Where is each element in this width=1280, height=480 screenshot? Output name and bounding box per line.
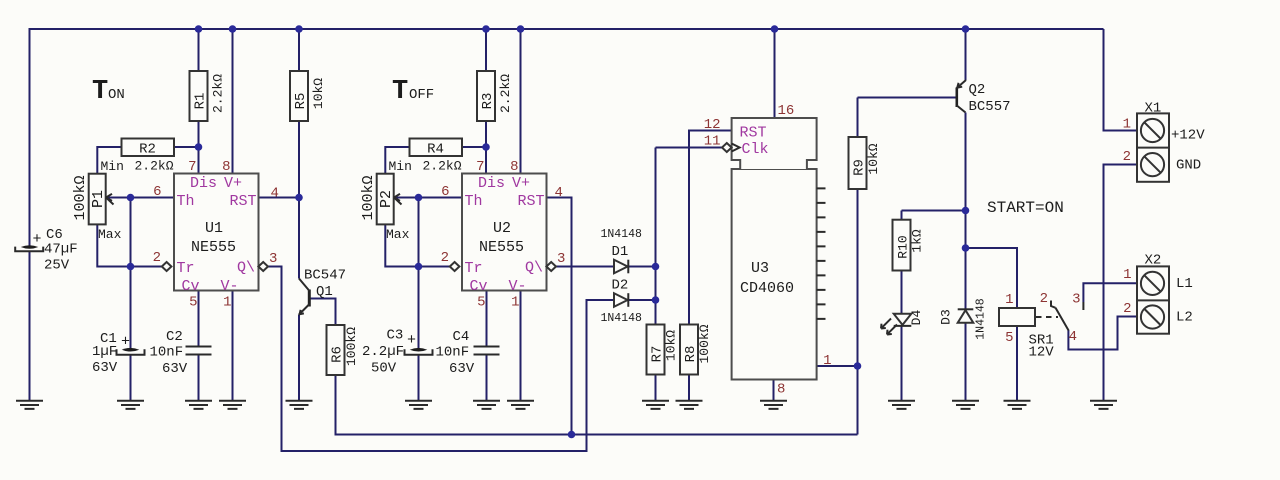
ground R8 [676,401,703,409]
ground C4 [473,401,500,409]
diode D2 [614,293,628,307]
ground C6 [16,401,43,409]
svg-text:2: 2 [1040,291,1048,307]
terminal block X1 [1137,113,1169,181]
capacitor C4 [474,347,500,355]
node A: P1 wiper / U1 Th / C1 [127,194,135,202]
svg-text:1: 1 [1123,117,1131,133]
junction R5/bus [295,25,303,33]
potentiometer P1 wiper arrow [106,194,114,205]
svg-text:NE555: NE555 [191,239,236,256]
op-amp U1 NE555 box [174,174,259,291]
svg-text:2: 2 [1123,301,1131,317]
svg-text:+: + [33,231,42,248]
wire P1 wiper to U1 pin 6 Th [108,197,175,199]
wire D4 cathode to ground [901,327,903,402]
ground U1 pin1 [219,401,246,409]
svg-text:2.2kΩ: 2.2kΩ [134,159,173,174]
svg-text:Cv: Cv [470,278,488,295]
svg-text:100kΩ: 100kΩ [360,175,377,220]
svg-text:V-: V- [221,278,239,295]
wire R1 to U1 pin 7 [198,121,200,174]
svg-text:L2: L2 [1176,310,1193,326]
svg-text:63V: 63V [162,361,188,377]
svg-text:Th: Th [177,193,195,210]
svg-text:R5: R5 [293,93,309,110]
junction Q2 emitter/bus [962,25,970,33]
svg-text:3: 3 [1072,292,1080,308]
svg-text:U1: U1 [205,220,223,237]
svg-text:Tr: Tr [465,260,483,277]
resistor R3 [477,71,495,121]
svg-text:100kΩ: 100kΩ [72,175,89,220]
X1 screw 1 [1141,119,1164,142]
svg-text:R3: R3 [480,93,496,110]
svg-text:7: 7 [476,159,484,175]
svg-text:Clk: Clk [742,141,769,158]
wire R10 to LED D4 [901,271,903,314]
op-amp U2 NE555 box [462,174,547,291]
wire U1 pin 3 output down and right to D2 [268,267,614,452]
U3 pin 11 clock symbol [732,144,740,152]
svg-text:10nF: 10nF [150,345,184,361]
svg-text:U2: U2 [493,220,511,237]
svg-text:4: 4 [271,186,279,202]
resistor R8 [680,325,698,375]
svg-text:8: 8 [777,382,785,398]
wire P2 bottom Max to U2 pin 2 Tr [385,224,449,266]
wire U3 pin 8 to ground [773,380,775,402]
ground D4 [888,401,915,409]
svg-text:Q1: Q1 [316,284,333,300]
junction U2 V+/bus [517,25,525,33]
U1 pin 3 negation diamond [258,262,268,271]
ground C2 [185,401,212,409]
svg-text:2: 2 [441,250,449,266]
junction U1 Tr / C1 [127,263,135,271]
junction U3 pin1 / R9 [854,362,862,370]
svg-text:Cv: Cv [182,278,200,295]
wire Clk column to R7 [655,148,657,325]
U1 pin 2 negation diamond [162,262,172,271]
wire node B down to C3 [418,198,420,349]
wire bus to R1 [198,29,200,71]
svg-text:D1: D1 [612,244,629,260]
wire left +12V drop to C6 [29,28,31,246]
ground C3 [405,401,432,409]
svg-text:1kΩ: 1kΩ [910,229,925,253]
wire R8 to ground [688,375,690,402]
junction Q2 collector / relay [962,244,970,252]
svg-text:16: 16 [778,103,795,119]
wire R7 to ground [655,375,657,402]
wire R2 left lead to P1 top [97,147,121,174]
junction U1 RST / R5 / Q1 collector [295,194,303,202]
svg-text:5: 5 [1005,330,1013,346]
svg-text:2.2µF: 2.2µF [362,344,404,360]
svg-text:T: T [392,77,408,107]
svg-text:BC557: BC557 [969,99,1011,115]
wire Q1 emitter to ground [298,315,300,402]
svg-text:12: 12 [704,117,721,133]
resistor R7 [647,325,665,375]
ground X1 GND [1090,401,1117,409]
ground R7 [642,401,669,409]
svg-text:6: 6 [153,184,161,200]
U3 right side unconnected pin stubs [817,188,826,319]
svg-text:1: 1 [823,353,831,369]
junction Q2 collector / R10 [962,207,970,215]
wire collector node to relay coil SR1 [966,248,1018,308]
U2 pin 2 negation diamond [450,262,460,271]
junction D2 cathode / Clk [652,296,660,304]
wire bus to U2 pin 8 V+ [520,29,522,174]
svg-text:10kΩ: 10kΩ [664,330,679,361]
wire C3 to ground [418,355,420,401]
capacitor C2 [186,347,212,355]
U3 pin 11 negation diamond [722,143,732,152]
svg-text:R1: R1 [193,93,209,110]
svg-text:1: 1 [223,295,231,311]
junction control line / U2 RST [568,431,576,439]
wire bus to U1 pin 8 V+ [232,29,234,174]
svg-text:10kΩ: 10kΩ [311,78,326,109]
wire switch pin 4 to X2 pin 2 [1068,317,1137,350]
wire C1 to ground [130,355,132,401]
wire R3 to U2 pin 7 [485,121,487,174]
svg-text:100kΩ: 100kΩ [697,324,712,363]
wire D2 cathode to Clk column [629,299,656,301]
svg-text:8: 8 [222,159,230,175]
wire bus to R3 [485,29,487,71]
svg-text:R2: R2 [139,142,156,158]
svg-text:63V: 63V [92,360,118,376]
svg-text:D4: D4 [909,310,924,326]
svg-text:3: 3 [269,251,277,267]
svg-text:ON: ON [108,87,125,103]
wire P2 wiper to U2 pin 6 Th [396,197,463,199]
potentiometer P1 [89,174,106,225]
svg-text:BC547: BC547 [304,268,346,284]
wire U2 pin 1 V- to ground [520,291,522,402]
wire D3 to ground [965,323,967,402]
svg-text:2.2kΩ: 2.2kΩ [498,74,513,113]
wire C2 to ground [198,355,200,401]
wire U2 pin 4 RST down to bottom control line [547,198,572,435]
X2 screw 2 [1141,305,1164,328]
svg-text:NE555: NE555 [479,239,524,256]
svg-text:1: 1 [511,295,519,311]
wire bus to R5 [298,29,300,71]
wire U1 pin 4 RST to R5 column [259,197,300,199]
relay SR1 mechanical link (dashed) [1036,316,1058,318]
wire bus to U3 pin 16 [774,29,776,118]
wire node A down to C1 [130,198,132,349]
diode D3 [958,310,974,323]
transistor Q1 BC547 [308,290,311,307]
svg-text:4: 4 [555,185,563,201]
svg-text:+: + [407,332,416,349]
resistor R5 [290,71,308,121]
svg-text:RST: RST [517,193,544,210]
svg-text:2: 2 [153,250,161,266]
svg-text:4: 4 [1069,329,1077,345]
U2 pin 3 negation diamond [546,262,556,271]
svg-text:D2: D2 [612,278,629,294]
wire R10 top lead [901,211,903,220]
node B: P2 wiper / U2 Th / C3 [415,194,423,202]
junction U1 V+/bus [229,25,237,33]
svg-text:Min: Min [101,159,124,174]
svg-text:U3: U3 [751,260,769,277]
LED D4 emission arrows [881,319,897,335]
svg-text:CD4060: CD4060 [740,280,794,297]
ground Q1 emitter [286,401,313,409]
svg-text:10kΩ: 10kΩ [866,143,881,174]
svg-text:50V: 50V [371,361,397,377]
wire relay coil to ground [1016,326,1018,401]
ground relay SR1 [1004,401,1031,409]
svg-text:+12V: +12V [1171,128,1205,144]
ground U2 pin1 [507,401,534,409]
svg-text:100kΩ: 100kΩ [344,327,359,366]
switch SR1 blade to contact 4 [1056,308,1069,331]
resistor R1 [190,71,208,121]
transistor Q2 BC557 [955,88,958,108]
LED D4 [894,314,912,325]
capacitor C1 electrolytic [122,348,140,352]
junction R4/R3 column [482,143,490,151]
svg-text:RST: RST [740,125,767,142]
svg-text:2.2kΩ: 2.2kΩ [211,74,226,113]
ground C1 [117,401,144,409]
wire R5 to RST node and Q1 collector [298,121,300,279]
switch SR1 contact 2 [1051,301,1056,308]
wire P1 bottom Max to U1 pin 2 Tr [97,224,161,266]
wire Q2 collector column [965,113,967,310]
diode D1 [614,260,628,274]
resistor R10 [893,220,911,271]
wire Q1 base to R6 [310,299,336,326]
svg-text:1µF: 1µF [92,344,117,360]
svg-text:10nF: 10nF [436,345,470,361]
wire U3 pin 11 Clk [656,147,723,149]
svg-text:6: 6 [441,184,449,200]
svg-text:Q\: Q\ [237,260,255,277]
wire U1 pin 1 V- to ground [232,291,234,402]
wire R9 bottom to pin1 node and control line [857,189,859,435]
svg-text:C3: C3 [387,328,404,344]
svg-text:25V: 25V [44,258,70,274]
svg-text:7: 7 [188,159,196,175]
svg-text:1N4148: 1N4148 [601,228,643,241]
svg-text:C2: C2 [166,329,183,345]
capacitor C6 electrolytic [21,245,39,249]
svg-text:X2: X2 [1145,253,1162,269]
svg-text:C4: C4 [453,329,470,345]
potentiometer P2 wiper arrow [394,194,402,205]
potentiometer P2 [377,174,394,225]
wire C4 to ground [486,355,488,401]
wire bus to Q2 emitter [965,29,967,80]
resistor R4 [410,139,463,157]
switch SR1 contact 3 [1082,302,1084,310]
svg-text:1N4148: 1N4148 [975,298,988,340]
junction U2 Tr / C3 [415,263,423,271]
wire R4 right lead to R3 column [462,146,486,148]
wire U2 pin 3 output to D1 [556,266,614,268]
svg-text:1: 1 [1123,267,1131,283]
svg-text:12V: 12V [1029,345,1055,361]
svg-text:Dis: Dis [190,175,217,192]
svg-text:V+: V+ [224,175,242,192]
wire R9 top to Q2 base line [857,98,859,138]
resistor R2 [122,139,175,157]
wire U1 pin 5 to C2 [198,291,200,347]
wire U3 pin 12 RST to R8 [689,131,732,325]
wire bus right corner to X1 pin 1 [1104,29,1138,131]
svg-text:Dis: Dis [478,175,505,192]
svg-text:P1: P1 [90,190,107,208]
wire R4 left lead to P2 top [385,147,409,174]
X2 screw 1 [1141,272,1164,295]
ground D3 [952,401,979,409]
svg-text:1N4148: 1N4148 [601,312,643,325]
wire Q2 base line [858,97,957,99]
svg-text:Q2: Q2 [969,82,986,98]
svg-text:47µF: 47µF [44,242,78,258]
svg-text:Max: Max [386,227,410,242]
svg-text:Tr: Tr [177,260,195,277]
svg-text:T: T [92,77,108,107]
wire D1 cathode to Clk column [629,266,656,268]
X1 screw 2 [1141,153,1164,176]
svg-text:Max: Max [98,227,122,242]
svg-text:11: 11 [704,134,721,150]
wire U3 pin 1 to R9 column [817,365,858,367]
IC U3 CD4060 outline [732,169,817,380]
svg-text:X1: X1 [1145,101,1162,117]
svg-text:P2: P2 [378,190,395,208]
svg-text:63V: 63V [449,361,475,377]
svg-text:START=ON: START=ON [987,199,1064,217]
svg-text:L1: L1 [1176,276,1193,292]
ground U3 pin8 [760,401,787,409]
resistor R9 [849,137,867,189]
terminal block X2 [1137,266,1169,333]
junction D1 cathode / Clk [652,263,660,271]
svg-text:1: 1 [1005,292,1013,308]
junction R1/bus [195,25,203,33]
wire X1 pin 2 GND column to ground [1104,165,1138,402]
svg-text:Min: Min [389,159,412,174]
wire +12V top bus [30,28,1104,30]
svg-text:R4: R4 [427,142,444,158]
wire collector node to R10 [902,210,966,212]
svg-text:OFF: OFF [409,87,434,103]
svg-text:V+: V+ [512,175,530,192]
svg-text:5: 5 [189,295,197,311]
svg-text:8: 8 [510,159,518,175]
svg-text:Q\: Q\ [525,260,543,277]
svg-text:3: 3 [557,251,565,267]
resistor R6 [327,325,345,375]
svg-text:D3: D3 [939,309,954,325]
svg-text:Th: Th [465,193,483,210]
svg-text:2: 2 [1123,149,1131,165]
junction R2/R1 column [195,143,203,151]
svg-text:2.2kΩ: 2.2kΩ [422,159,461,174]
relay SR1 coil [999,308,1035,326]
junction R3/bus [482,25,490,33]
junction U3 pin16/bus [771,25,779,33]
capacitor C3 electrolytic [410,348,428,352]
svg-text:+: + [121,334,130,351]
wire C6 to ground [29,252,31,402]
svg-text:V-: V- [509,278,527,295]
wire R2 right lead to R1 column [174,146,199,148]
svg-text:5: 5 [477,295,485,311]
svg-text:R10: R10 [896,235,911,258]
svg-text:RST: RST [229,193,256,210]
wire R6 bottom control line to R9 column [336,375,858,435]
svg-text:GND: GND [1176,158,1201,174]
wire U2 pin 5 to C4 [486,291,488,347]
wire switch pin 3 to X2 pin 1 [1083,283,1137,302]
